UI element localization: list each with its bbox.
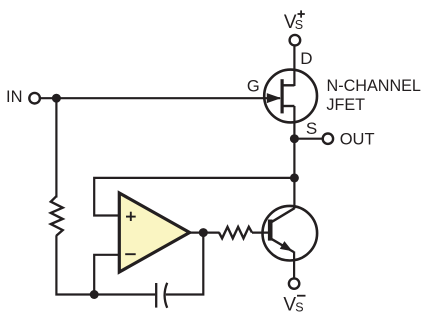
svg-text:N-CHANNEL: N-CHANNEL: [327, 77, 421, 95]
V- terminal circle: [289, 278, 299, 288]
V+ terminal circle: [290, 35, 301, 46]
svg-text:IN: IN: [6, 88, 23, 106]
label V+ supply: [284, 10, 305, 33]
IN terminal circle: [29, 93, 40, 104]
JFET Q1 circle: [264, 70, 317, 123]
JFET drain lead inside circle: [282, 84, 294, 86]
wire bottom rail capacitor to output vertical: [166, 233, 204, 295]
junction dot feedback node: [290, 173, 299, 182]
svg-text:S: S: [295, 18, 303, 32]
svg-text:G: G: [247, 77, 260, 95]
wire OUT node to OUT terminal: [294, 138, 322, 140]
op-amp + input sign: [126, 212, 136, 221]
wire JFET drain to V+ terminal: [293, 47, 295, 87]
op-amp - input sign: [125, 253, 136, 255]
capacitor C1 left plate: [155, 283, 157, 308]
resistor R2 horizontal zigzag: [219, 227, 252, 238]
JFET source lead inside circle: [282, 105, 294, 107]
op-amp U1 triangle: [119, 193, 189, 272]
wire resistor R1 bottom to bottom rail corner: [56, 235, 155, 294]
junction dot IN node: [52, 94, 61, 103]
JFET gate bar: [281, 79, 284, 113]
BJT emitter diagonal: [272, 239, 294, 252]
junction dot - input / bottom rail node: [90, 290, 99, 299]
wire op-amp - input: [94, 255, 121, 295]
BJT collector diagonal: [272, 208, 295, 222]
wire left vertical from IN node to resistor R1: [55, 98, 57, 197]
wire IN to JFET gate: [41, 97, 280, 99]
wire resistor R2 to BJT base: [252, 232, 269, 234]
wire JFET source down through OUT node to BJT collector: [293, 106, 295, 209]
capacitor C1 right curved plate: [165, 283, 168, 308]
label V- supply: [283, 294, 305, 315]
svg-text:S: S: [306, 119, 317, 138]
wire op-amp output to resistor R2: [189, 232, 220, 234]
BJT emitter arrow: [280, 241, 293, 251]
svg-text:D: D: [300, 49, 312, 68]
wire BJT emitter to V- terminal: [293, 252, 295, 278]
svg-text:S: S: [295, 300, 303, 314]
resistor R1 vertical zigzag: [51, 196, 63, 235]
svg-text:OUT: OUT: [340, 131, 375, 149]
svg-text:JFET: JFET: [326, 96, 365, 114]
OUT terminal circle: [323, 134, 333, 144]
BJT Q2 circle: [263, 206, 318, 261]
wire feedback: source node to op-amp + input: [94, 178, 294, 216]
BJT base bar: [268, 220, 273, 241]
junction dot source/OUT node: [290, 134, 299, 143]
junction dot op-amp output node: [199, 228, 208, 237]
JFET gate arrow: [267, 93, 281, 103]
